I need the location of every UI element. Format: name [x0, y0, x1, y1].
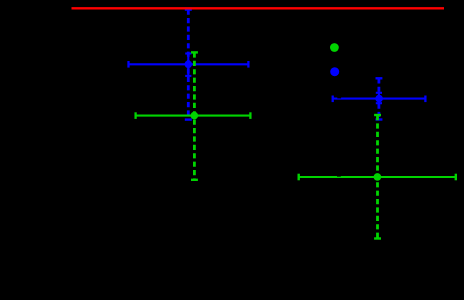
black notch over green bar (invisible series overlap) [337, 174, 341, 177]
green point 1 : marker [191, 112, 199, 120]
blue point 1 : marker [185, 61, 193, 69]
green point 1 (left) : vertical dashed error bar [191, 52, 198, 179]
green point 2 : horizontal error bar [299, 174, 456, 181]
green point 1 : horizontal error bar [136, 112, 251, 119]
blue point 2 : inner solid vertical error bar with caps [376, 93, 382, 103]
legend marker blue [330, 67, 339, 76]
black notch over blue bar (invisible series overlap) [337, 96, 341, 99]
green point 2 (right) : vertical dashed error bar [374, 115, 381, 239]
red reference line [72, 7, 445, 9]
green point 2 : marker [374, 173, 382, 181]
blue point 2 (right) : vertical dashed error bar [376, 78, 383, 119]
blue point 1 : horizontal error bar [129, 61, 249, 68]
blue point 1 (left) : vertical dashed error bar [185, 10, 192, 120]
blue point 1 : inner solid vertical error bar with caps [185, 54, 191, 76]
blue point 2 : marker [375, 95, 383, 103]
legend marker green [330, 43, 339, 52]
blue point 2 : horizontal error bar [333, 96, 426, 103]
